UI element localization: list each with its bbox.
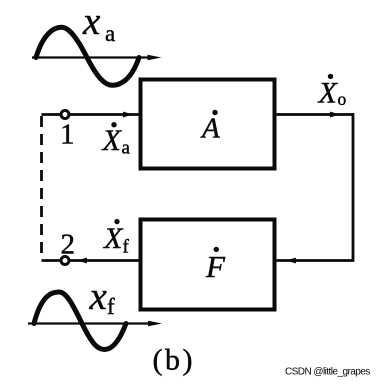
svg-text:x: x: [89, 275, 108, 318]
svg-text:f: f: [123, 237, 130, 258]
svg-text:X: X: [103, 222, 124, 255]
svg-text:A: A: [200, 113, 220, 145]
svg-text:1: 1: [60, 119, 75, 151]
svg-text:X: X: [102, 124, 123, 157]
svg-text:CSDN @little_grapes: CSDN @little_grapes: [285, 367, 370, 378]
svg-text:F: F: [205, 249, 226, 284]
svg-text:a: a: [105, 21, 115, 46]
svg-text:2: 2: [61, 229, 76, 261]
svg-text:(b): (b): [153, 344, 195, 377]
svg-text:x: x: [82, 0, 101, 43]
svg-text:X: X: [318, 77, 339, 110]
svg-text:o: o: [338, 89, 347, 109]
svg-text:a: a: [122, 138, 131, 159]
svg-text:f: f: [107, 294, 115, 319]
